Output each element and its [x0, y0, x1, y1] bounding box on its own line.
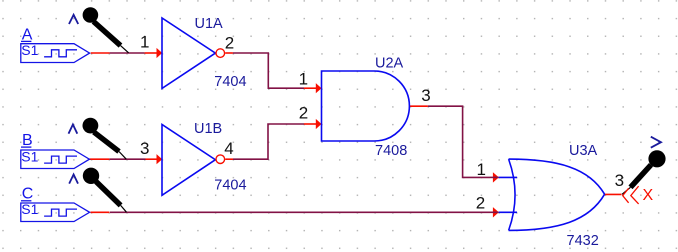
svg-text:S1: S1	[21, 148, 38, 164]
svg-text:3: 3	[421, 86, 430, 105]
svg-text:1: 1	[476, 160, 485, 179]
svg-text:2: 2	[225, 33, 234, 52]
svg-text:1: 1	[299, 69, 308, 88]
svg-text:3: 3	[140, 139, 149, 158]
svg-text:7432: 7432	[567, 233, 599, 249]
svg-text:C: C	[22, 185, 34, 202]
svg-text:S1: S1	[21, 201, 38, 217]
svg-text:2: 2	[476, 193, 485, 212]
svg-text:B: B	[22, 132, 33, 149]
svg-text:3: 3	[615, 171, 624, 190]
svg-text:4: 4	[224, 139, 233, 158]
svg-text:7404: 7404	[214, 178, 246, 194]
svg-text:U1B: U1B	[194, 121, 222, 137]
svg-text:U1A: U1A	[195, 16, 224, 32]
svg-text:S1: S1	[21, 42, 38, 58]
svg-text:U3A: U3A	[569, 143, 598, 159]
svg-text:X: X	[643, 187, 654, 204]
svg-text:1: 1	[140, 32, 149, 51]
svg-text:U2A: U2A	[375, 55, 404, 71]
svg-text:7408: 7408	[375, 143, 407, 159]
svg-text:7404: 7404	[214, 74, 246, 90]
svg-text:2: 2	[299, 104, 308, 123]
